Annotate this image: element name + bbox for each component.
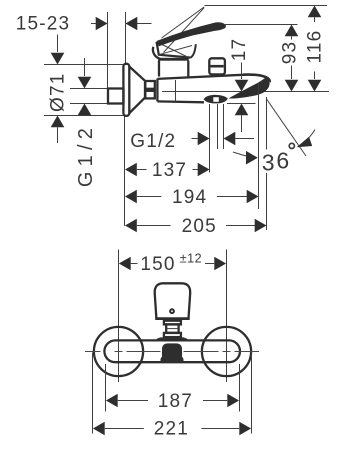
- svg-text:±12: ±12: [180, 252, 202, 266]
- union hex: [145, 81, 155, 89]
- svg-text:Ø71: Ø71: [48, 72, 69, 112]
- handle base: [157, 42, 191, 58]
- dim 205: [125, 219, 137, 233]
- svg-text:15-23: 15-23: [16, 14, 71, 35]
- dim 137: [125, 163, 137, 177]
- lever blade: [157, 22, 226, 46]
- dim 17: [241, 63, 243, 80]
- ref line handle top: [224, 24, 298, 26]
- escutcheon left: [94, 327, 143, 376]
- lever raised phantom lines: [162, 7, 205, 38]
- svg-text:G1/2: G1/2: [75, 123, 97, 187]
- diverter knob front silhouette: [162, 343, 182, 358]
- svg-text:205: 205: [182, 216, 217, 237]
- svg-text:137: 137: [152, 160, 187, 181]
- dim O71: [57, 35, 59, 53]
- body/outlet centerline: [162, 91, 329, 93]
- spout tip vertical ref: [258, 83, 260, 210]
- diverter knob: [209, 58, 225, 74]
- svg-text:17: 17: [229, 38, 250, 62]
- dim O71 extension lines: [44, 64, 128, 66]
- extension line wall surface: [107, 12, 109, 88]
- aerator tip ref line: [227, 103, 256, 105]
- handle column: [158, 61, 160, 77]
- dim 221: [93, 422, 105, 436]
- svg-text:221: 221: [154, 418, 189, 439]
- aerator extension lines: [209, 104, 211, 173]
- dim 187: [106, 394, 118, 408]
- svg-text:194: 194: [172, 187, 207, 208]
- svg-text:150: 150: [140, 254, 175, 275]
- 221 extension lines: [92, 353, 94, 434]
- body capsule: [104, 340, 240, 362]
- 187 extension lines: [105, 364, 107, 412]
- escutcheon right: [202, 327, 251, 376]
- dim 93: [285, 25, 299, 37]
- wall pipe box: [108, 89, 124, 104]
- spout: [243, 75, 270, 83]
- wall reference line down: [124, 116, 126, 226]
- handle front: [155, 283, 191, 318]
- centerline: [85, 351, 259, 353]
- slanted 36deg line: [267, 99, 307, 156]
- handle screw: [170, 309, 174, 313]
- flange face: [123, 64, 129, 116]
- outer vertical ref: [266, 97, 268, 150]
- aerator: [204, 95, 228, 104]
- body: [156, 79, 158, 102]
- dim line 15-23: [91, 23, 108, 25]
- dim 150 +-12: [119, 257, 131, 271]
- svg-text:G1/2: G1/2: [130, 131, 176, 152]
- flange cone: [129, 67, 145, 114]
- extension line flange face: [125, 12, 127, 64]
- svg-text:36: 36: [262, 147, 291, 175]
- dim G1/2 wall connection: [84, 58, 86, 76]
- svg-text:93: 93: [280, 41, 301, 65]
- cartridge collar: [164, 321, 181, 325]
- dim 116: [308, 6, 322, 18]
- ref line lever top: [205, 5, 328, 7]
- dim 194: [125, 190, 137, 204]
- svg-text:187: 187: [158, 391, 193, 412]
- 150 extension lines: [118, 250, 120, 383]
- svg-text:116: 116: [305, 30, 326, 64]
